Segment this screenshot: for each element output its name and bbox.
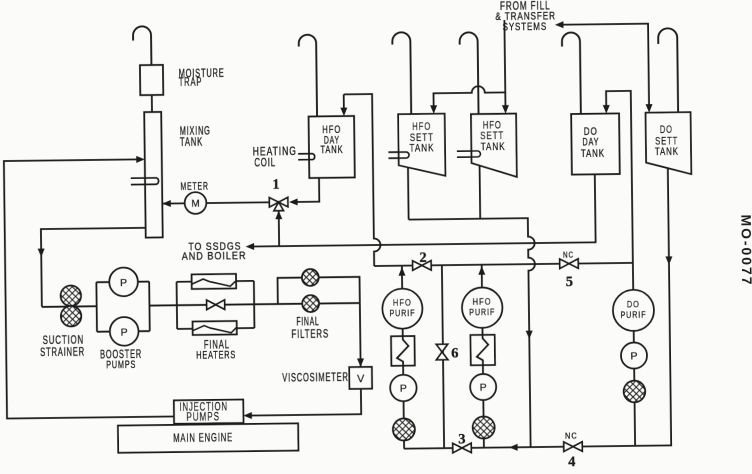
svg-text:VISCOSIMETER: VISCOSIMETER bbox=[282, 371, 349, 385]
wire: engine return line up left side and into mixing tank bbox=[4, 159, 174, 419]
label: from fill and transfer systems bbox=[500, 0, 551, 13]
node: arrow into HFO settling tank 1 bbox=[430, 105, 437, 114]
wire: settling outlet header to suction drop with hops bbox=[409, 218, 537, 449]
wire: valve 1 down to SSDGS line bbox=[278, 209, 280, 246]
wire: purifier discharge header line B bbox=[374, 263, 633, 266]
node: down arrow on suction drop bbox=[38, 249, 45, 258]
HFO settling tank 1 bbox=[398, 114, 445, 177]
svg-text:PUMPS: PUMPS bbox=[106, 358, 136, 371]
vent: HFO day tank gooseneck bbox=[299, 35, 317, 117]
wire: HFO settling tank 2 outlet bbox=[479, 165, 482, 219]
svg-text:COIL: COIL bbox=[254, 157, 276, 170]
node: arrow into injection pumps bbox=[243, 412, 252, 419]
wire: heater 2 to pump bbox=[482, 365, 484, 374]
svg-text:TANK: TANK bbox=[409, 142, 434, 155]
wire: pump 1 to strainer bbox=[403, 401, 405, 418]
final heater 1 bbox=[192, 274, 237, 289]
svg-text:TANK: TANK bbox=[655, 146, 679, 159]
vent: mixing tank moisture trap gooseneck bbox=[133, 26, 151, 65]
suction strainer (duplex) bbox=[61, 285, 82, 306]
wire: pump 2 to strainer bbox=[482, 400, 484, 417]
node: arrow to SSDGS and boiler bbox=[246, 243, 255, 250]
wire: heater 1 to pump bbox=[402, 366, 404, 375]
vent: HFO settling tank 1 gooseneck bbox=[392, 32, 411, 114]
vent: HFO settling tank 2 gooseneck bbox=[460, 32, 479, 114]
label: main engine bbox=[173, 432, 233, 446]
mixing tank bbox=[144, 112, 163, 238]
wire: viscosimeter to injection pumps bbox=[250, 389, 361, 416]
heating coil symbol on HFO settling tank 1 bbox=[388, 152, 409, 158]
svg-text:FINAL: FINAL bbox=[296, 316, 319, 330]
wire: DO settling tank outlet down to bottom suction line bbox=[401, 168, 672, 448]
wire: DO purifier discharge riser to DO day tank bbox=[606, 91, 633, 290]
valve 2 bbox=[413, 261, 432, 271]
node: arrow into HFO settling tank 2 bbox=[502, 105, 509, 114]
valve 4 (NC) bbox=[564, 442, 583, 452]
node: arrow into DO settling tank bbox=[646, 104, 653, 113]
wire: filters to viscosimeter bbox=[359, 303, 362, 367]
label: NC (valve 5) bbox=[563, 250, 574, 260]
node: up arrow below valve 1 bbox=[275, 211, 282, 220]
heater bypass valve bbox=[207, 300, 225, 310]
DO settling tank bbox=[646, 112, 692, 175]
DO strainer bbox=[624, 381, 646, 403]
meter M1 bbox=[185, 192, 207, 214]
wire: fill branch to HFO settling tank 1 with hop over vent bbox=[433, 86, 505, 107]
svg-text:PURIF: PURIF bbox=[620, 309, 646, 321]
vent: DO settling tank gooseneck bbox=[658, 28, 678, 112]
node: up arrow on purifier 2 discharge bbox=[478, 266, 485, 275]
svg-text:NC: NC bbox=[563, 250, 574, 260]
svg-text:TANK: TANK bbox=[581, 147, 605, 160]
wire: DO day tank outlet to SSDGS and boiler line bbox=[251, 174, 595, 246]
valve 1 three-way bbox=[269, 197, 288, 207]
svg-text:6: 6 bbox=[451, 345, 458, 361]
HFO day tank bbox=[309, 116, 355, 178]
label: final filters bbox=[296, 316, 319, 330]
svg-text:PURIF: PURIF bbox=[469, 306, 495, 318]
main engine box bbox=[118, 423, 299, 452]
wire: final heaters to final filters bbox=[254, 303, 278, 305]
moisture trap bbox=[140, 65, 163, 95]
svg-text:P: P bbox=[121, 326, 128, 338]
svg-text:NC: NC bbox=[565, 431, 578, 441]
svg-text:TRAP: TRAP bbox=[179, 76, 203, 89]
wire: booster pumps to final heaters bbox=[149, 304, 176, 306]
svg-text:MO-0077: MO-0077 bbox=[738, 214, 752, 284]
wire: strainer 2 to suction line bbox=[483, 438, 485, 447]
svg-text:HEATERS: HEATERS bbox=[196, 349, 236, 363]
label: final heaters bbox=[204, 339, 230, 352]
svg-text:2: 2 bbox=[419, 250, 426, 266]
purifier strainer 2 bbox=[473, 416, 495, 438]
valve 5 (NC) bbox=[560, 259, 579, 269]
heating coil symbol on HFO day tank bbox=[298, 154, 315, 160]
svg-text:1: 1 bbox=[272, 177, 279, 193]
svg-text:TANK: TANK bbox=[320, 142, 343, 155]
svg-text:STRAINER: STRAINER bbox=[40, 346, 85, 360]
booster pump P2 bbox=[110, 317, 139, 346]
wire: strainer 1 to suction line bbox=[403, 440, 405, 448]
svg-text:SYSTEMS: SYSTEMS bbox=[503, 21, 548, 34]
viscosimeter V1 bbox=[349, 367, 372, 389]
DO day tank bbox=[571, 113, 620, 174]
svg-text:TANK: TANK bbox=[481, 141, 506, 154]
svg-text:5: 5 bbox=[566, 274, 573, 290]
injection pumps box bbox=[174, 400, 244, 424]
svg-text:PURIF: PURIF bbox=[389, 307, 415, 319]
label: suction strainer bbox=[43, 334, 85, 347]
node: arrow into mixing tank left side bbox=[136, 156, 145, 163]
node: down arrow on DO settling outlet bbox=[665, 256, 672, 265]
wire: valve 1 to meter to mixing tank bbox=[162, 202, 278, 203]
node: arrow into DO day tank bbox=[603, 105, 610, 114]
label: mixing tank bbox=[180, 125, 211, 138]
DO purifier bbox=[613, 290, 654, 331]
svg-text:P: P bbox=[630, 350, 637, 362]
svg-text:P: P bbox=[480, 382, 487, 394]
purifier heater 1 bbox=[391, 336, 415, 366]
node: arrow from fill systems bbox=[555, 21, 564, 28]
final heater 2 bbox=[193, 321, 237, 335]
wire: from fill and transfer systems to DO settling tank bbox=[562, 24, 649, 107]
heating coil symbol on HFO settling tank 2 bbox=[457, 151, 481, 157]
wire: moisture trap to mixing tank bbox=[151, 95, 153, 112]
DO purifier pump P5 bbox=[621, 342, 647, 368]
wire: valve 6 bypass branch bbox=[442, 265, 444, 448]
svg-text:P: P bbox=[120, 277, 127, 289]
final filter 2 bbox=[302, 295, 319, 312]
HFO purifier 2 bbox=[462, 287, 503, 328]
label: moisture trap bbox=[179, 67, 225, 81]
label: heating coil bbox=[253, 146, 297, 159]
wire: DO purifier to pump bbox=[633, 331, 635, 343]
purifier pump P3 bbox=[390, 375, 417, 402]
label: HFO settling tank 1 bbox=[412, 121, 431, 134]
label: NC (valve 4) bbox=[565, 431, 578, 441]
svg-text:MAIN ENGINE: MAIN ENGINE bbox=[173, 432, 233, 446]
wire: DO strainer to bottom line bbox=[634, 402, 637, 446]
svg-text:V: V bbox=[357, 373, 365, 385]
svg-text:DO: DO bbox=[660, 122, 673, 135]
wire: main suction line through strainer to booster pumps bbox=[42, 305, 97, 308]
HFO settling tank 2 bbox=[471, 114, 517, 178]
wire: purifier 1 to heater bbox=[402, 328, 404, 336]
label: booster pumps bbox=[100, 348, 142, 362]
node: arrow into viscosimeter bbox=[357, 358, 364, 367]
valve 3 bbox=[453, 443, 472, 453]
heating coil symbol on mixing tank bbox=[131, 178, 159, 185]
wire: purifier 2 to heater bbox=[481, 328, 483, 335]
wire: HFO purifier discharge riser to HFO day tank with hop over SSDGS line bbox=[344, 94, 381, 266]
wire: HFO settling tank 1 outlet bbox=[407, 167, 410, 219]
label: to SSDGS and boiler bbox=[188, 240, 241, 253]
label: HFO settling tank 2 bbox=[483, 119, 502, 132]
svg-text:FILTERS: FILTERS bbox=[291, 328, 329, 341]
svg-text:3: 3 bbox=[458, 431, 465, 447]
wire: HFO purifier 1 discharge bbox=[401, 266, 403, 289]
svg-text:TANK: TANK bbox=[180, 136, 203, 149]
wire: mixing tank outlet to suction drop bbox=[41, 228, 147, 307]
wire: DO pump to strainer bbox=[633, 368, 635, 380]
wire: final heaters bracket bbox=[177, 281, 255, 329]
svg-text:METER: METER bbox=[180, 180, 208, 194]
purifier heater 2 bbox=[470, 335, 495, 365]
purifier pump P4 bbox=[470, 374, 496, 400]
node: arrow into mixing tank right side bbox=[162, 200, 171, 207]
wire: fill line to HFO settling tank 2 bbox=[504, 20, 505, 106]
label: viscosimeter bbox=[282, 371, 349, 385]
label: DO settling tank bbox=[660, 122, 673, 135]
label: DO day tank bbox=[584, 126, 598, 139]
wire: booster pumps bracket bbox=[96, 282, 149, 332]
svg-text:PUMPS: PUMPS bbox=[186, 411, 220, 424]
label: meter bbox=[180, 180, 208, 194]
svg-text:M: M bbox=[191, 199, 199, 210]
svg-text:P: P bbox=[400, 383, 407, 395]
vent: DO day tank gooseneck bbox=[562, 32, 581, 114]
label: HFO day tank bbox=[322, 124, 341, 137]
label: injection pumps bbox=[179, 401, 228, 414]
booster pump P1 bbox=[109, 267, 138, 296]
wire: final filters loop bbox=[278, 277, 360, 304]
final filter 1 bbox=[302, 269, 319, 286]
wire: HFO day tank outlet to valve 1 bbox=[295, 178, 319, 202]
node: arrow into valve 1 bbox=[289, 198, 298, 205]
node: down arrow on suction drop line bbox=[526, 331, 533, 340]
svg-text:DAY: DAY bbox=[582, 136, 599, 148]
wire: HFO day tank inlet drop bbox=[343, 94, 345, 108]
wire: HFO purifier 2 discharge bbox=[481, 265, 483, 288]
node: arrow on bottom suction line bbox=[509, 444, 518, 451]
svg-text:AND BOILER: AND BOILER bbox=[182, 250, 247, 263]
node: arrow into HFO day tank bbox=[340, 108, 347, 117]
HFO purifier 1 bbox=[382, 288, 422, 328]
node: up arrow on purifier 1 discharge bbox=[398, 267, 405, 276]
svg-text:4: 4 bbox=[568, 454, 575, 469]
purifier strainer 1 bbox=[393, 418, 415, 440]
valve 6 bbox=[436, 344, 448, 360]
